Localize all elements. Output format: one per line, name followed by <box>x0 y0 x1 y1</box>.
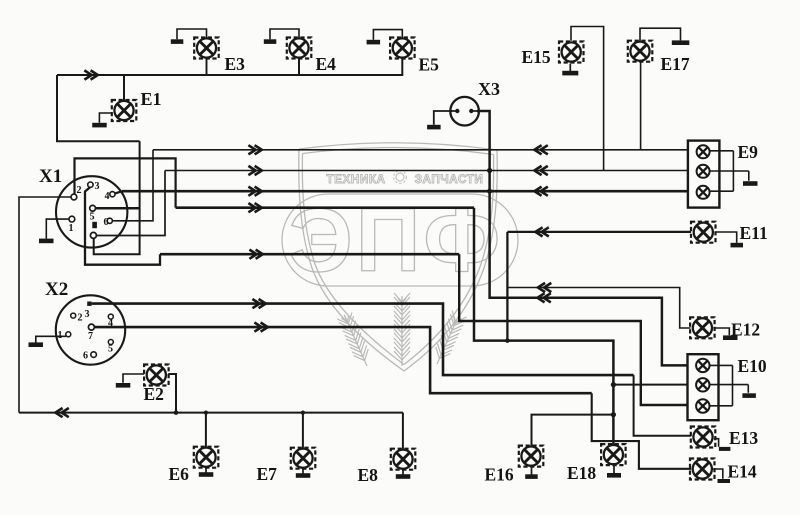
junction E2 tap <box>174 410 179 415</box>
junction X3 net on L2 <box>487 168 492 173</box>
connector arrows E12 line <box>538 283 551 292</box>
wire E8 drop <box>402 413 404 449</box>
wire line L1 <box>153 149 688 151</box>
wire E1 ground link <box>99 113 112 123</box>
wire E11 net riser <box>506 232 508 341</box>
connector arrows top bus <box>84 70 97 79</box>
lamp E11 <box>691 222 716 243</box>
wire E11 feed line <box>507 231 691 233</box>
ground E1 <box>92 123 107 128</box>
wire X2 pin1 ground link <box>36 336 66 343</box>
svg-text:1: 1 <box>69 223 74 234</box>
svg-text:E11: E11 <box>740 223 768 243</box>
lamp E7 <box>291 448 316 469</box>
lamp E2 <box>144 365 169 386</box>
wire E13 ground link <box>714 439 719 447</box>
watermark band text <box>326 172 483 186</box>
wire E10 common <box>709 365 748 405</box>
ground E10 <box>742 393 756 398</box>
wire E14 ground link <box>713 469 723 479</box>
wire X1 pin1 ground link <box>46 219 69 239</box>
ground E9 <box>743 181 758 186</box>
connector X3 <box>450 97 479 126</box>
wire X3 ground link <box>434 111 452 125</box>
svg-text:3: 3 <box>85 309 90 320</box>
junction E11 net on L4 branch <box>505 338 510 343</box>
svg-text:ЭПФ: ЭПФ <box>289 191 504 291</box>
wire E2 to bus <box>168 374 176 413</box>
ground E11 <box>731 243 744 248</box>
lamp E12 <box>690 317 715 338</box>
lamp E17 <box>628 41 653 62</box>
svg-text:E10: E10 <box>738 356 767 376</box>
svg-text:E3: E3 <box>225 54 246 74</box>
wire E4 ground link <box>270 29 299 39</box>
connector arrows bottom bus <box>55 408 68 417</box>
svg-text:E16: E16 <box>485 465 514 485</box>
svg-text:ТЕХНИКА: ТЕХНИКА <box>326 172 385 186</box>
junction E16 tap <box>611 412 616 417</box>
ground E15 <box>569 64 571 72</box>
connector arrows L2 <box>248 166 261 175</box>
svg-text:3: 3 <box>95 181 100 192</box>
svg-text:E14: E14 <box>728 462 757 482</box>
wire E16 feed <box>532 415 614 447</box>
svg-text:E8: E8 <box>358 465 379 485</box>
ground E4 <box>264 39 277 44</box>
svg-text:X3: X3 <box>478 79 500 99</box>
ground X2 pin1 <box>29 342 44 347</box>
svg-text:2: 2 <box>77 185 82 196</box>
wire X1 pin3 drop <box>85 187 160 264</box>
connector X1 <box>56 176 127 247</box>
wire X1 pin7 to L2 riser <box>96 171 165 236</box>
wire E12 branch <box>507 288 690 329</box>
ground E8 <box>402 470 404 475</box>
wire X1 pin4 stub <box>115 191 122 193</box>
wire E4 drop <box>298 58 300 75</box>
lamp E14 <box>690 459 715 480</box>
watermark gear <box>394 171 407 184</box>
svg-text:E9: E9 <box>738 142 759 162</box>
connector arrows L1 right <box>534 145 547 154</box>
ground X3 <box>427 125 441 130</box>
connector arrows X3 net line <box>537 293 550 302</box>
wire E12 ground link <box>714 328 729 335</box>
wire X2 centre pin line <box>94 327 591 393</box>
connector arrows L3 right <box>534 187 547 196</box>
ground E7 <box>302 469 304 474</box>
ground E16 <box>531 466 533 476</box>
ground E5 <box>367 40 381 45</box>
svg-text:X2: X2 <box>45 279 68 300</box>
wire top lamp bus <box>57 74 403 76</box>
lamp E4 <box>287 38 312 59</box>
svg-text:E2: E2 <box>144 384 164 404</box>
wire E10 middle feed <box>613 384 687 386</box>
connector arrows L1 <box>248 145 261 154</box>
svg-text:ЗАПЧАСТИ: ЗАПЧАСТИ <box>415 172 484 186</box>
wire E7 drop <box>302 413 304 448</box>
wire bus to X1 area link <box>57 75 140 141</box>
svg-text:E4: E4 <box>316 54 337 74</box>
lamp E16 <box>519 446 544 467</box>
svg-text:E1: E1 <box>141 89 162 109</box>
lamp E15 <box>559 42 584 63</box>
ground X1 pin1 <box>39 239 54 244</box>
svg-text:6: 6 <box>83 351 88 362</box>
svg-text:5: 5 <box>90 212 95 223</box>
wire E6 drop <box>205 413 207 447</box>
connector arrows L3 <box>248 187 261 196</box>
wire X1 pin6 to L1 riser <box>112 150 153 221</box>
wire vertical v1 to pin7 loop <box>94 141 140 254</box>
watermark shield logo <box>282 143 518 371</box>
wire E2 ground link <box>123 374 144 383</box>
svg-text:4: 4 <box>108 318 113 329</box>
connector arrows E11 line <box>535 227 548 236</box>
wire X3 net drop <box>477 111 688 365</box>
wire E17 drop <box>640 62 642 150</box>
wire E15 feed <box>571 27 604 171</box>
lamp E13 <box>691 427 716 448</box>
wire E14 riser <box>592 393 692 469</box>
wire E3 drop <box>206 58 208 75</box>
connector arrows L2 right <box>534 166 547 175</box>
junction E10 middle tap <box>611 382 616 387</box>
ground E12 <box>723 335 738 340</box>
wire E9 common <box>709 151 749 191</box>
ground E2 <box>116 383 131 388</box>
lamp E6 <box>194 447 219 468</box>
wire X1 pin5 feed <box>95 207 139 210</box>
wire L4 rear branch <box>474 208 613 445</box>
svg-text:E6: E6 <box>169 464 190 484</box>
connector X2 <box>56 295 125 364</box>
lamp E5 <box>390 38 415 59</box>
svg-text:E18: E18 <box>567 463 596 483</box>
wire line L2 <box>165 170 688 172</box>
ground E3 <box>171 39 184 44</box>
ground E14 <box>718 479 731 483</box>
junction E7 tap <box>301 411 305 415</box>
wire E13 riser <box>634 375 692 436</box>
connector arrows X2 line B <box>254 323 267 332</box>
svg-text:1: 1 <box>58 330 63 341</box>
svg-text:5: 5 <box>108 344 113 355</box>
ground E6 <box>205 468 207 473</box>
svg-text:7: 7 <box>88 331 93 342</box>
wire line L3 <box>122 190 688 193</box>
connector arrows X2 line A <box>252 299 265 308</box>
wire E17 ground link <box>640 28 681 41</box>
connector arrows L4 <box>248 203 261 212</box>
lamp E8 <box>391 449 416 470</box>
wire X2 pin3 line <box>92 304 634 376</box>
wire E11 ground link <box>716 232 737 243</box>
wire E1 drop <box>123 75 125 101</box>
wire E3 ground link <box>177 29 207 39</box>
wire line L5 <box>160 253 459 256</box>
wire E5 ground link <box>373 30 402 40</box>
ground E13 <box>719 447 731 451</box>
lamp E18 <box>601 444 626 465</box>
wire L5 riser to rear lamps <box>459 254 688 405</box>
lamp E3 <box>194 38 219 59</box>
svg-text:E7: E7 <box>257 464 278 484</box>
wire E5 drop <box>401 59 403 76</box>
lamp E1 <box>112 100 137 121</box>
wire line L4 <box>176 206 474 209</box>
wire bottom lamp bus <box>19 412 403 414</box>
ground E18 <box>613 464 615 474</box>
lamp block E10 <box>688 354 719 420</box>
junction E6 tap <box>204 411 208 415</box>
wire X1 pin2 left branch <box>19 197 71 413</box>
junction X3 net on L3 <box>487 189 492 194</box>
connector arrows L5 <box>249 250 262 259</box>
svg-text:2: 2 <box>78 313 83 324</box>
lamp block E9 <box>688 141 720 208</box>
ground E17 <box>672 40 690 45</box>
svg-text:E15: E15 <box>522 47 551 67</box>
wire X1 pin2 riser <box>75 158 176 207</box>
svg-text:4: 4 <box>105 191 110 202</box>
svg-text:6: 6 <box>104 217 109 228</box>
svg-text:E5: E5 <box>419 55 440 75</box>
svg-text:E17: E17 <box>661 54 690 74</box>
svg-text:E12: E12 <box>731 320 760 340</box>
svg-text:X1: X1 <box>39 166 62 187</box>
svg-text:E13: E13 <box>729 428 758 448</box>
watermark wheat ears <box>394 293 410 366</box>
